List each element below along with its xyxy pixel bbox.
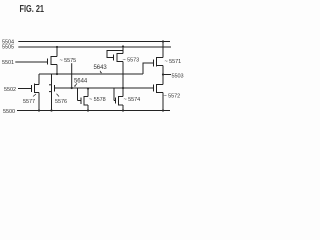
node 5643 wire [39,73,143,75]
svg-text:FIG. 21: FIG. 21 [20,4,45,15]
wire right rail mid [162,66,164,85]
junction 5571 drain to wiring 5504 [162,40,164,42]
wire 5501 [15,61,47,63]
junction 5578 source to wiring 5500 [87,109,89,111]
junction 5573 source / 5574 drain on node 5644 [122,87,124,89]
junction 5574 source to wiring 5500 [122,109,124,111]
junction 5575 drain to wiring 5505 [56,46,58,48]
junction 5573 drain to wiring 5505 [122,45,124,47]
transistor 5576 [51,74,53,84]
transistor 5572 [153,85,155,92]
svg-text:~ 5572: ~ 5572 [164,94,181,100]
transistor 5578 [87,89,89,97]
junction 5575 branch on node 5644 [71,87,73,89]
svg-text:5502: 5502 [4,87,16,93]
arrowhead 5643 [100,72,102,73]
wire 5502 [18,88,32,90]
svg-text:5505: 5505 [2,45,14,51]
svg-text:5500: 5500 [3,109,15,115]
junction 5577 source to wiring 5500 [38,109,40,111]
wire node5643 to gate of 5571 [143,63,154,74]
svg-text:5644: 5644 [74,78,88,84]
leader 5576 [57,94,60,97]
transistor 5571 [153,60,155,67]
svg-text:~ 5575: ~ 5575 [60,58,77,64]
transistor 5573 [113,55,115,61]
svg-text:5643: 5643 [94,65,108,71]
junction 5578 drain on node 5644 [87,87,89,89]
svg-text:~ 5574: ~ 5574 [124,97,141,103]
svg-text:5576: 5576 [55,99,67,105]
svg-text:5503: 5503 [172,73,184,79]
wire 5505 bus [18,46,171,48]
svg-text:5501: 5501 [2,60,14,66]
svg-text:~ 5573: ~ 5573 [123,57,140,63]
svg-text:5577: 5577 [23,99,35,105]
transistor 5574 [122,88,124,97]
transistor 5577 [31,85,33,92]
svg-text:~ 5571: ~ 5571 [165,59,182,65]
wire right rail lower [162,93,164,111]
leader 5577 [33,94,36,97]
arrow node 5643 [100,71,101,73]
junction 5576 source to wiring 5500 [50,109,52,111]
wire right rail upper [162,42,164,58]
transistor 5575 [47,59,49,65]
junction output node to wiring 5503 [162,73,164,75]
arrow node 5644 [75,83,77,86]
junction 5572 source to wiring 5500 [162,109,164,111]
junction 5575 source to node 5643 [56,73,58,75]
arrowhead 5644 [74,85,76,87]
wire 5500 bus [17,110,170,112]
wire output 5503 stub [163,74,171,76]
svg-text:~ 5578: ~ 5578 [89,97,106,103]
wire 5504 bus [18,41,170,43]
node 5644 wire [55,87,154,89]
wire 5575 second terminal to node 5644 [71,63,73,88]
